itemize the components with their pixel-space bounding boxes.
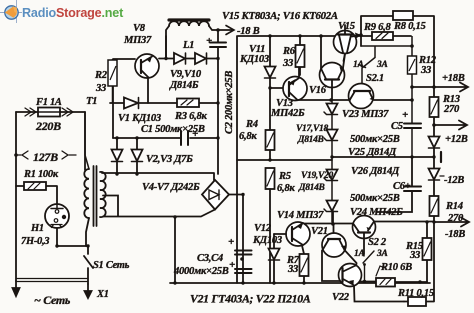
- svg-text:V25 Д814Д: V25 Д814Д: [348, 147, 397, 158]
- svg-text:V23 МП37: V23 МП37: [342, 109, 389, 120]
- svg-text:V2,V3 Д7Б: V2,V3 Д7Б: [146, 154, 193, 165]
- svg-text:127В: 127В: [33, 150, 58, 164]
- svg-text:+: +: [229, 259, 235, 271]
- svg-text:V14 МП37: V14 МП37: [277, 210, 324, 221]
- svg-text:Д814В: Д814В: [297, 135, 324, 145]
- svg-text:R11 0,15: R11 0,15: [397, 288, 435, 299]
- svg-text:33: 33: [95, 83, 107, 94]
- svg-text:V15 КТ803А; V16 КТ602А: V15 КТ803А; V16 КТ602А: [222, 10, 338, 22]
- svg-text:220В: 220В: [35, 119, 61, 133]
- svg-text:S2 2: S2 2: [368, 237, 387, 248]
- svg-text:V8: V8: [133, 23, 146, 34]
- svg-text:+: +: [206, 35, 212, 47]
- svg-text:4000мк×25В: 4000мк×25В: [173, 266, 229, 277]
- svg-text:7Н-0,3: 7Н-0,3: [21, 236, 49, 247]
- svg-text:3А: 3А: [376, 249, 388, 259]
- svg-text:Н1: Н1: [30, 223, 44, 234]
- svg-text:L1: L1: [182, 40, 194, 51]
- svg-text:V21 ГТ403А; V22 П210А: V21 ГТ403А; V22 П210А: [190, 292, 311, 306]
- svg-text:V4-V7 Д242Б: V4-V7 Д242Б: [142, 182, 200, 193]
- svg-text:С5: С5: [391, 121, 404, 132]
- svg-text:3А: 3А: [376, 60, 388, 70]
- svg-text:S2.1: S2.1: [366, 73, 384, 84]
- svg-text:F1 1А: F1 1А: [35, 97, 62, 108]
- svg-text:R2: R2: [94, 70, 108, 81]
- svg-text:МП37: МП37: [123, 35, 152, 46]
- svg-text:Д814В: Д814В: [298, 183, 325, 193]
- svg-text:270: 270: [443, 104, 460, 115]
- svg-text:R4: R4: [245, 119, 258, 130]
- svg-text:V24 МП42Б: V24 МП42Б: [350, 207, 403, 218]
- svg-text:~ Сеть: ~ Сеть: [34, 293, 71, 307]
- svg-text:R3 6,8к: R3 6,8к: [174, 111, 207, 122]
- svg-text:500мк×25В: 500мк×25В: [350, 193, 400, 204]
- svg-text:V17,V18: V17,V18: [296, 124, 328, 134]
- svg-text:V26 Д814Д: V26 Д814Д: [351, 166, 400, 177]
- svg-text:R9 6,8: R9 6,8: [363, 22, 391, 33]
- svg-text:R6: R6: [282, 46, 296, 57]
- svg-text:6,8к: 6,8к: [239, 131, 257, 142]
- svg-text:33: 33: [282, 58, 294, 69]
- svg-text:+: +: [192, 128, 198, 140]
- svg-text:С2 200мк×25В: С2 200мк×25В: [224, 71, 235, 134]
- svg-text:+18В: +18В: [442, 73, 465, 84]
- svg-text:-18 В: -18 В: [237, 26, 260, 37]
- svg-text:V22: V22: [332, 292, 350, 303]
- svg-text:R5: R5: [278, 171, 292, 182]
- svg-text:1А: 1А: [354, 249, 365, 259]
- svg-text:С6+: С6+: [393, 181, 411, 192]
- svg-text:R14: R14: [445, 201, 463, 212]
- svg-text:6,8к: 6,8к: [277, 183, 295, 194]
- svg-text:С3,С4: С3,С4: [197, 253, 223, 264]
- svg-text:RadioStorage.net: RadioStorage.net: [22, 6, 124, 20]
- svg-text:+12В: +12В: [445, 134, 468, 145]
- svg-text:R1 100к: R1 100к: [23, 169, 59, 180]
- svg-text:Т1: Т1: [86, 96, 97, 107]
- svg-text:+: +: [402, 109, 408, 121]
- svg-text:33: 33: [420, 65, 432, 76]
- svg-text:S1 Сеть: S1 Сеть: [93, 260, 130, 271]
- svg-text:270: 270: [447, 213, 464, 224]
- svg-text:V16: V16: [309, 85, 327, 96]
- svg-text:V15: V15: [338, 21, 356, 32]
- svg-text:V12: V12: [254, 223, 272, 234]
- svg-text:33: 33: [287, 264, 299, 275]
- svg-text:R8 0,15: R8 0,15: [393, 21, 426, 32]
- svg-text:R10 6В: R10 6В: [380, 262, 412, 273]
- svg-text:33: 33: [409, 250, 421, 261]
- svg-text:Х1: Х1: [96, 289, 109, 300]
- svg-text:КД103: КД103: [239, 54, 270, 65]
- svg-text:-18В: -18В: [445, 229, 465, 240]
- svg-text:МП42Б: МП42Б: [270, 108, 305, 119]
- svg-text:V21: V21: [311, 226, 328, 237]
- svg-text:-12В: -12В: [444, 175, 464, 186]
- svg-text:1А: 1А: [353, 60, 364, 70]
- svg-text:Д814Б: Д814Б: [169, 80, 199, 91]
- svg-text:V19,V20: V19,V20: [301, 171, 333, 181]
- svg-text:+: +: [228, 236, 234, 248]
- svg-text:500мк×25В: 500мк×25В: [350, 134, 400, 145]
- svg-text:V1 КД103: V1 КД103: [118, 113, 162, 124]
- svg-text:КД103: КД103: [252, 235, 283, 246]
- svg-text:V9,V10: V9,V10: [170, 69, 202, 80]
